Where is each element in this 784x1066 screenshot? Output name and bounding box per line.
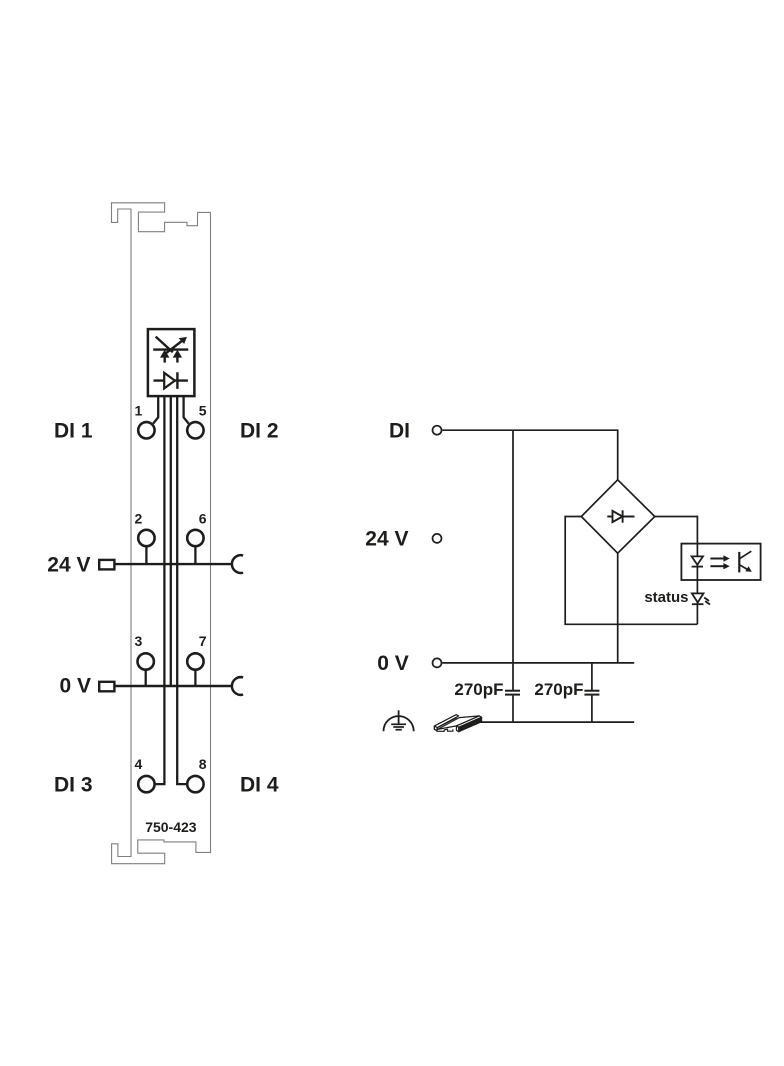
svg-text:24 V: 24 V — [47, 553, 90, 576]
svg-text:DI 1: DI 1 — [54, 420, 93, 443]
24V rail crescent — [232, 555, 243, 573]
terminal 1 — [138, 422, 154, 438]
wire bus middle to 0V rail — [170, 396, 172, 686]
svg-text:DI: DI — [389, 420, 410, 443]
svg-text:DI 4: DI 4 — [240, 773, 279, 796]
optocoupler box U2 — [681, 544, 760, 580]
optocoupler LED triangle — [692, 556, 703, 564]
svg-text:24 V: 24 V — [365, 528, 408, 551]
24V rail square connector — [99, 560, 114, 570]
wire lead 1 from U1 to terminal 1 — [153, 396, 158, 424]
optocoupler light arrow upper — [710, 558, 725, 560]
0V rail square connector — [99, 682, 114, 692]
wire 0V rail — [442, 662, 634, 664]
svg-text:4: 4 — [135, 756, 143, 772]
capacitor C2 bottom lead — [591, 696, 593, 723]
svg-text:status: status — [644, 589, 688, 606]
bridge diode cathode bar — [622, 510, 624, 522]
capacitor C2 top lead — [591, 663, 593, 690]
bridge rectifier diamond — [581, 480, 655, 553]
wire DI junction down to C1 — [512, 430, 514, 690]
svg-text:270pF: 270pF — [534, 680, 583, 699]
phototransistor emitter with arrow — [739, 565, 747, 570]
DIN rail icon — [434, 715, 481, 732]
bridge diode line — [607, 516, 634, 518]
phototransistor collector — [739, 551, 751, 559]
wire lead 5 from U1 to terminal 5 — [184, 396, 189, 424]
stem terminal 3 to 0V rail — [145, 670, 147, 687]
terminal 8 — [187, 776, 203, 792]
status LED triangle — [692, 593, 704, 602]
optocoupler LED bar — [692, 566, 703, 568]
svg-text:DI 3: DI 3 — [54, 773, 93, 796]
svg-text:5: 5 — [199, 403, 207, 419]
svg-text:1: 1 — [135, 403, 143, 419]
terminal 7 — [187, 653, 203, 669]
terminal 4 — [138, 776, 154, 792]
wire DI to bridge top — [442, 430, 617, 480]
LED indicator box U1 — [148, 329, 195, 396]
module 750-423 body outline — [112, 203, 211, 864]
wire ground rail — [478, 721, 634, 723]
wire bridge right to optocoupler — [655, 517, 698, 625]
ground symbol — [384, 716, 414, 731]
terminal 2 — [138, 530, 154, 546]
0V rail crescent — [232, 677, 243, 695]
terminal 3 — [138, 653, 154, 669]
svg-text:8: 8 — [199, 756, 207, 772]
stem terminal 6 to 24V rail — [194, 546, 196, 564]
LED symbol diagonal arrow — [164, 340, 183, 355]
terminal circle DI — [433, 426, 442, 435]
terminal 6 — [187, 530, 203, 546]
svg-text:2: 2 — [135, 510, 143, 526]
LED up arrow left — [163, 354, 165, 363]
optocoupler light arrow lower — [710, 565, 725, 567]
wire bus right to terminal 8 — [177, 396, 186, 784]
0V rail wire — [115, 685, 233, 687]
svg-text:0 V: 0 V — [377, 652, 409, 675]
svg-text:7: 7 — [199, 633, 207, 649]
terminal 5 — [187, 422, 203, 438]
24V rail wire — [115, 563, 233, 565]
phototransistor bar — [738, 552, 740, 573]
svg-text:0 V: 0 V — [59, 674, 91, 697]
wire bus left to terminal 4 — [155, 396, 164, 784]
diode symbol in U1 — [154, 379, 188, 381]
status LED bar — [692, 603, 704, 605]
stem terminal 7 to 0V rail — [194, 670, 196, 687]
wire bridge left loop — [565, 517, 697, 625]
capacitor C2 plates — [584, 690, 599, 692]
svg-text:6: 6 — [199, 510, 207, 526]
LED symbol diagonal line — [156, 337, 173, 353]
bridge diode triangle — [613, 511, 623, 522]
svg-text:DI 2: DI 2 — [240, 420, 279, 443]
capacitor C1 plates — [505, 690, 520, 692]
LED symbol bar in U1 — [153, 348, 188, 350]
status LED emission dashes — [704, 598, 709, 601]
wire bridge bottom to 0V — [617, 553, 619, 663]
svg-text:3: 3 — [135, 633, 143, 649]
terminal circle 24V — [433, 534, 442, 543]
stem terminal 2 to 24V rail — [145, 546, 147, 564]
svg-text:270pF: 270pF — [454, 680, 503, 699]
terminal circle 0V — [433, 658, 442, 667]
capacitor C1 bottom lead — [512, 696, 514, 723]
svg-text:750-423: 750-423 — [145, 819, 197, 835]
LED up arrow right — [176, 354, 178, 363]
